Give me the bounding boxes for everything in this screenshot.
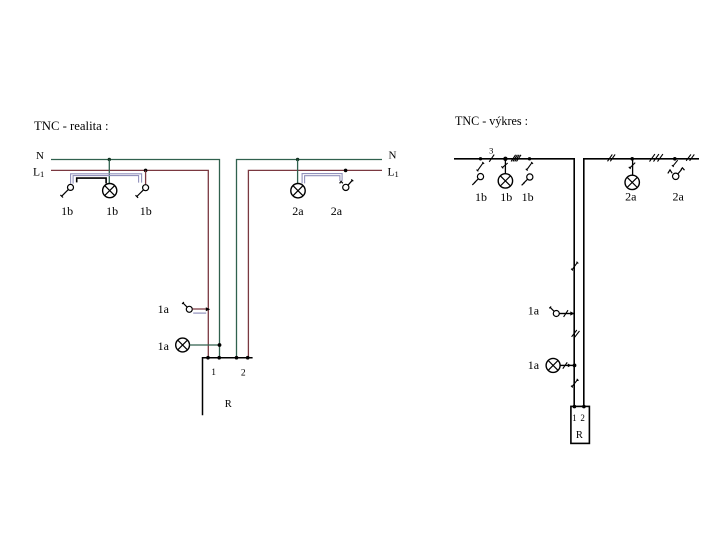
wire N left (green): [51, 160, 220, 358]
svg-text:1b: 1b: [475, 190, 487, 204]
lamp 1b (drawing): [498, 174, 512, 188]
svg-text:1a: 1a: [528, 358, 540, 372]
node board terminal 3: [235, 356, 239, 360]
slash pair after corner: [608, 154, 616, 161]
wire main right segment: [584, 159, 699, 407]
svg-text:N: N: [389, 150, 397, 162]
lamp 1b: [103, 184, 117, 198]
slash on switch 1a wire: [564, 310, 568, 317]
node lamp 1b on N: [108, 158, 111, 161]
lamp 1a (drawing): [546, 358, 560, 372]
wire main left segment: [454, 159, 574, 407]
wire switch 1a to riser: [559, 313, 574, 315]
slash stub switch 2a: [672, 160, 678, 167]
node board terminal 2: [217, 356, 221, 360]
arrow on lamp 1a wire: [568, 364, 572, 368]
wire lamp 2a drop (green): [297, 160, 299, 184]
node lamp 1a on riser: [573, 364, 577, 368]
svg-text:1: 1: [572, 413, 577, 423]
node lamp 1b: [503, 157, 507, 161]
svg-text:2a: 2a: [673, 189, 685, 203]
slash stub switch 1b-2: [526, 162, 533, 171]
wire lamp 1a to N (green): [190, 344, 220, 346]
slash stub lamp 2a: [629, 163, 635, 169]
svg-text:TNC - výkres :: TNC - výkres :: [455, 113, 528, 128]
svg-text:1b: 1b: [61, 204, 73, 218]
svg-text:L1: L1: [388, 167, 399, 180]
wire switched phase to lamp (black): [77, 178, 106, 183]
wire switch 1a to L1 (red): [192, 308, 208, 310]
wire 2a correspondent inner (lavender): [305, 176, 340, 184]
wire 2a correspondent outer (lavender): [302, 174, 342, 184]
svg-text:3: 3: [489, 146, 493, 156]
wire switch 1b right drop (red): [145, 170, 147, 184]
slash triple before switch 2a: [650, 154, 663, 162]
svg-text:1a: 1a: [158, 339, 170, 353]
lamp 2a (drawing): [625, 175, 639, 189]
svg-text:2: 2: [580, 413, 585, 423]
wire lamp 1b drop (green): [108, 160, 110, 184]
slash conductor mark 3x: [489, 155, 494, 162]
svg-text:R: R: [225, 399, 232, 410]
slash riser mark 2 (double): [572, 330, 580, 338]
lamp 2a: [291, 184, 305, 198]
wire correspondent inner (lavender): [73, 176, 139, 184]
node board terminal 4: [246, 356, 250, 360]
svg-text:1b: 1b: [140, 204, 152, 218]
slash riser mark 1: [571, 262, 578, 271]
svg-text:2a: 2a: [292, 204, 304, 218]
svg-text:1a: 1a: [158, 302, 170, 316]
arrow joint switch 1a drawing: [570, 311, 574, 315]
slash stub lamp 1b: [501, 163, 507, 168]
wire stub lamp 1b: [504, 159, 506, 174]
svg-text:2a: 2a: [331, 204, 343, 218]
node board terminal 1: [206, 356, 210, 360]
switch 1b left: [60, 184, 73, 197]
wire L1 right (dark red): [248, 170, 382, 357]
node lamp 2a on N: [296, 158, 299, 161]
switch 2a drawing (series): [668, 168, 685, 180]
node box terminal 2: [582, 405, 586, 409]
node switch 2a drawing: [673, 157, 677, 161]
switch 1b-1 (drawing): [472, 174, 483, 185]
node box terminal 1: [573, 405, 577, 409]
svg-text:N: N: [36, 150, 44, 162]
node lamp 1a on N: [218, 343, 222, 347]
wire L1 left (dark red): [51, 170, 208, 357]
svg-text:1: 1: [211, 368, 216, 378]
svg-text:TNC - realita :: TNC - realita :: [34, 118, 109, 133]
switch 2a (series switch): [340, 179, 354, 190]
svg-text:2: 2: [241, 368, 246, 378]
node switch 1b-1: [479, 157, 482, 160]
slash riser mark 3: [571, 379, 579, 388]
arrow joint switch 1a: [206, 307, 210, 311]
distribution board R outline (left): [203, 358, 253, 416]
switch 1b right: [136, 185, 149, 198]
switch 1a: [182, 302, 192, 312]
switch 1a drawing: [549, 307, 559, 317]
wire N right (green): [237, 160, 383, 358]
switch 1b-2 (drawing): [522, 174, 533, 185]
distribution board R box (drawing): [571, 406, 590, 443]
wire stub lamp 2a: [632, 159, 634, 175]
node switch 2a on L1: [344, 169, 348, 173]
svg-text:1b: 1b: [522, 190, 534, 204]
svg-text:1b: 1b: [500, 190, 512, 204]
node switch 1b right on L1: [144, 169, 148, 173]
node lamp 2a drawing: [630, 157, 634, 161]
slash group 4 conductors: [511, 155, 521, 162]
wire lamp 1a to riser: [560, 364, 574, 366]
wire switch 1a return (lavender): [193, 312, 206, 314]
svg-text:1a: 1a: [528, 304, 540, 318]
svg-text:L1: L1: [33, 167, 44, 180]
node switch 1b-2: [528, 157, 531, 160]
lamp 1a: [176, 338, 190, 352]
svg-text:1b: 1b: [106, 204, 118, 218]
slash stub switch 1b-1: [477, 162, 485, 171]
svg-text:R: R: [576, 430, 583, 441]
wire correspondent outer (lavender): [71, 174, 142, 184]
svg-text:2a: 2a: [625, 189, 637, 203]
slash pair end: [686, 154, 694, 160]
slash on lamp 1a wire: [563, 362, 567, 368]
